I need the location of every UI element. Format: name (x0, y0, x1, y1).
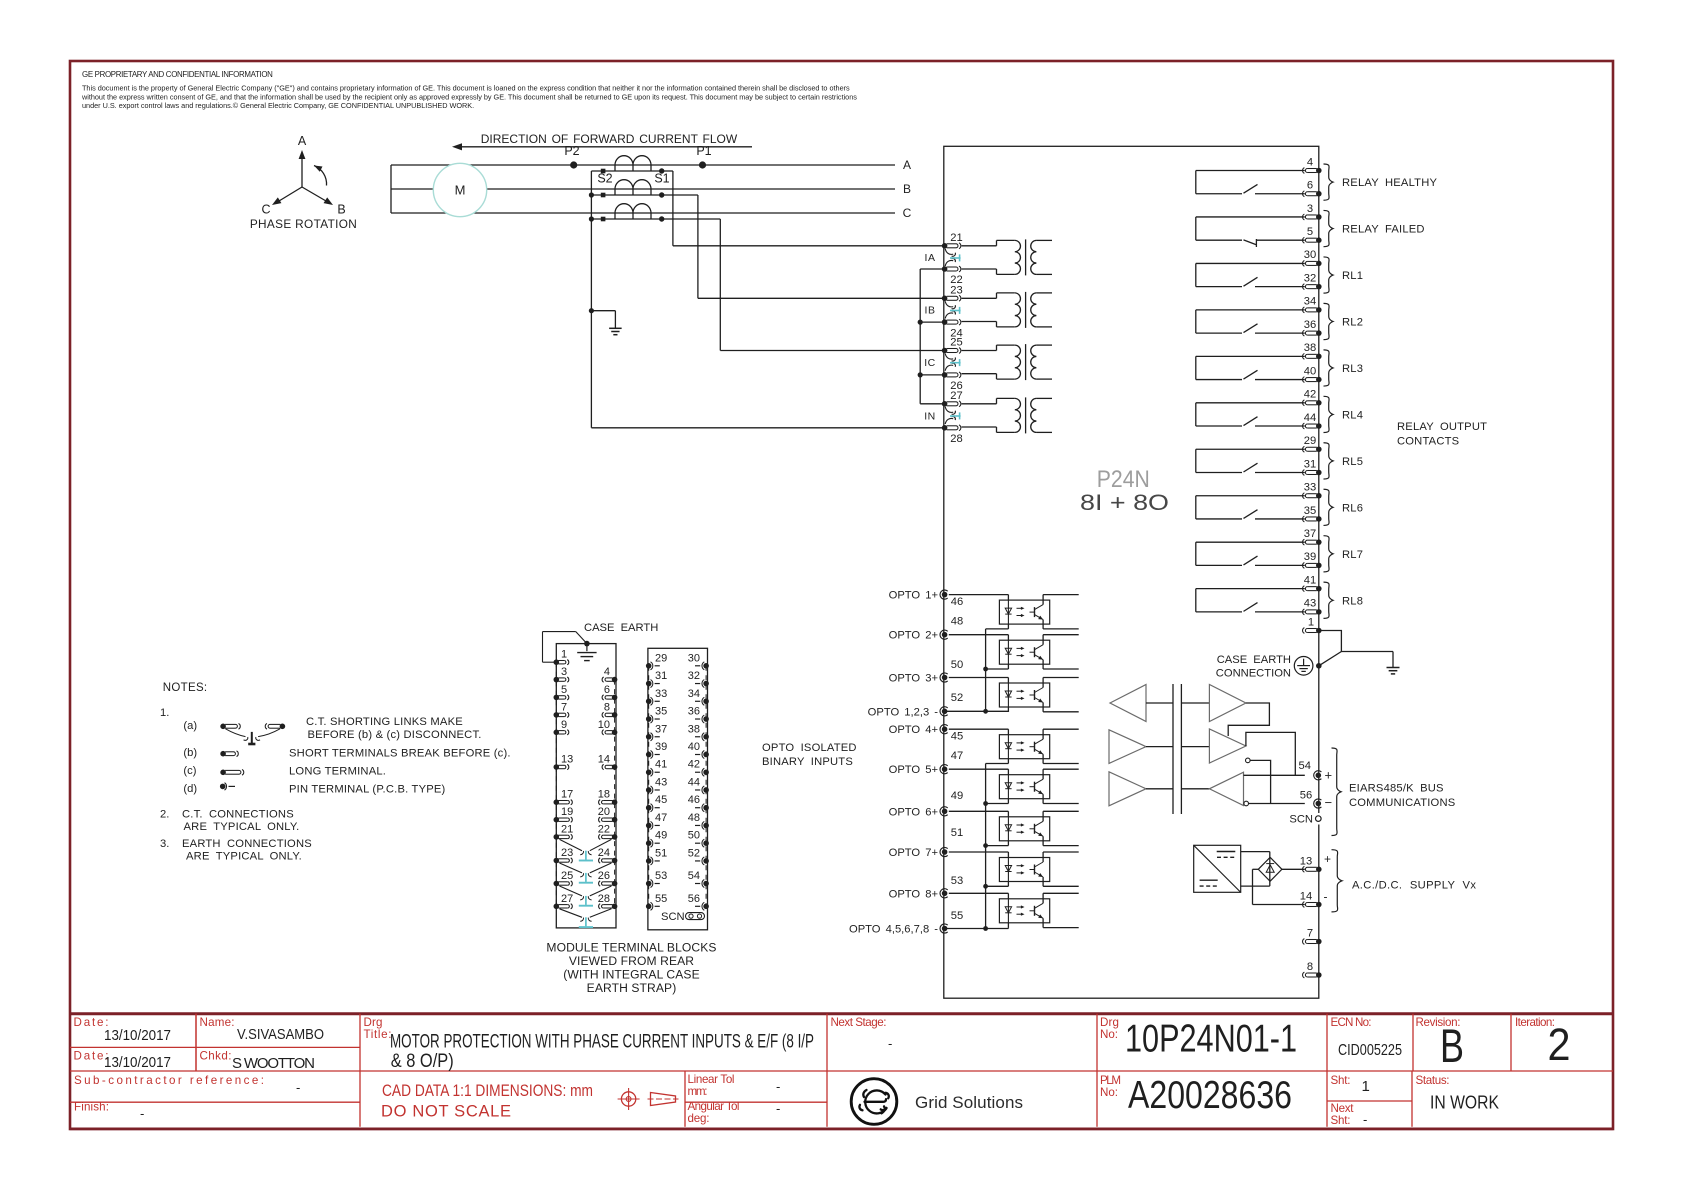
svg-text:BINARY INPUTS: BINARY INPUTS (762, 756, 853, 768)
svg-text:-: - (140, 1106, 144, 1121)
svg-text:9: 9 (561, 719, 567, 731)
svg-text:P1: P1 (696, 144, 711, 158)
svg-text:14: 14 (1300, 891, 1312, 903)
svg-text:ECN No:: ECN No: (1331, 1016, 1372, 1029)
svg-text:17: 17 (561, 789, 573, 801)
svg-text:8I + 8O: 8I + 8O (1080, 490, 1169, 515)
svg-text:RELAY HEALTHY: RELAY HEALTHY (1342, 177, 1437, 189)
svg-text:1: 1 (1308, 616, 1314, 628)
svg-text:Sht:: Sht: (1331, 1074, 1351, 1087)
svg-text:+: + (1325, 768, 1333, 783)
svg-text:without the express written co: without the express written consent of G… (81, 92, 857, 101)
svg-text:19: 19 (561, 806, 573, 818)
svg-text:45: 45 (655, 794, 667, 806)
svg-text:23: 23 (561, 847, 573, 859)
svg-text:29: 29 (655, 652, 667, 664)
svg-text:(b): (b) (183, 747, 197, 759)
svg-text:VIEWED FROM REAR: VIEWED FROM REAR (569, 954, 694, 968)
svg-text:38: 38 (1304, 342, 1316, 354)
svg-text:52: 52 (688, 847, 700, 859)
svg-text:20: 20 (598, 806, 610, 818)
svg-text:+: + (1324, 852, 1331, 866)
svg-text:Sub-contractor reference:: Sub-contractor reference: (74, 1074, 264, 1087)
svg-text:A: A (298, 134, 307, 148)
svg-text:31: 31 (655, 670, 667, 682)
svg-text:CASE EARTH: CASE EARTH (1217, 654, 1291, 666)
svg-text:CAD DATA 1:1 DIMENSIONS: mm: CAD DATA 1:1 DIMENSIONS: mm (382, 1082, 593, 1100)
svg-text:36: 36 (1304, 319, 1316, 331)
svg-text:26: 26 (598, 870, 610, 882)
svg-text:27: 27 (950, 390, 962, 402)
svg-text:OPTO 1+: OPTO 1+ (889, 590, 938, 602)
svg-text:4: 4 (604, 666, 610, 678)
svg-text:OPTO 4+: OPTO 4+ (889, 724, 938, 736)
svg-text:CONNECTION: CONNECTION (1216, 668, 1291, 680)
svg-text:PHASE ROTATION: PHASE ROTATION (250, 217, 357, 231)
svg-text:56: 56 (1300, 789, 1312, 801)
svg-text:7: 7 (1307, 927, 1313, 939)
svg-text:22: 22 (598, 823, 610, 835)
svg-text:40: 40 (688, 741, 700, 753)
svg-text:& 8 O/P): & 8 O/P) (391, 1050, 454, 1072)
svg-text:-: - (296, 1080, 300, 1095)
svg-text:OPTO 7+: OPTO 7+ (889, 847, 938, 859)
svg-text:44: 44 (1304, 412, 1316, 424)
svg-text:3: 3 (561, 666, 567, 678)
svg-text:30: 30 (688, 652, 700, 664)
svg-text:53: 53 (655, 870, 667, 882)
svg-text:ARE TYPICAL ONLY.: ARE TYPICAL ONLY. (186, 851, 302, 863)
svg-text:29: 29 (1304, 435, 1316, 447)
svg-text:MODULE TERMINAL BLOCKS: MODULE TERMINAL BLOCKS (546, 941, 716, 955)
svg-text:55: 55 (655, 893, 667, 905)
svg-text:33: 33 (655, 688, 667, 700)
svg-text:mm:: mm: (688, 1085, 708, 1098)
svg-text:50: 50 (688, 830, 700, 842)
svg-text:RL4: RL4 (1342, 409, 1363, 421)
svg-text:M: M (455, 183, 466, 198)
svg-text:Status:: Status: (1416, 1074, 1450, 1087)
svg-text:6: 6 (1307, 180, 1313, 192)
svg-text:RELAY OUTPUT: RELAY OUTPUT (1397, 421, 1487, 433)
svg-text:(c): (c) (183, 765, 196, 777)
svg-text:GE PROPRIETARY AND CONFIDENTIA: GE PROPRIETARY AND CONFIDENTIAL INFORMAT… (82, 70, 273, 79)
svg-text:OPTO ISOLATED: OPTO ISOLATED (762, 742, 857, 754)
svg-text:32: 32 (1304, 272, 1316, 284)
svg-text:RL3: RL3 (1342, 363, 1363, 375)
svg-text:28: 28 (950, 433, 962, 445)
svg-text:No:: No: (1100, 1086, 1118, 1099)
svg-text:(d): (d) (183, 783, 197, 795)
svg-text:34: 34 (1304, 296, 1316, 308)
svg-text:32: 32 (688, 670, 700, 682)
svg-text:S1: S1 (654, 172, 669, 186)
svg-text:RL1: RL1 (1342, 270, 1363, 282)
svg-text:35: 35 (1304, 505, 1316, 517)
svg-text:23: 23 (950, 284, 962, 296)
svg-text:31: 31 (1304, 458, 1316, 470)
svg-text:2.: 2. (160, 809, 169, 821)
svg-text:42: 42 (1304, 389, 1316, 401)
svg-text:46: 46 (688, 794, 700, 806)
svg-text:B: B (337, 203, 345, 217)
svg-text:25: 25 (950, 337, 962, 349)
svg-text:-: - (1363, 1112, 1367, 1127)
svg-text:47: 47 (655, 812, 667, 824)
svg-text:Next Stage:: Next Stage: (831, 1016, 887, 1029)
svg-text:-: - (776, 1079, 780, 1094)
svg-text:13: 13 (1300, 855, 1312, 867)
svg-text:C: C (261, 203, 270, 217)
svg-text:27: 27 (561, 893, 573, 905)
svg-text:−: − (1325, 795, 1333, 810)
svg-text:5: 5 (561, 684, 567, 696)
svg-text:Sht:: Sht: (1331, 1114, 1351, 1127)
svg-text:55: 55 (951, 910, 963, 922)
svg-text:S WOOTTON: S WOOTTON (232, 1055, 315, 1072)
svg-text:51: 51 (951, 827, 963, 839)
svg-text:-: - (776, 1101, 780, 1116)
svg-text:IN: IN (924, 410, 936, 422)
svg-text:CONTACTS: CONTACTS (1397, 436, 1459, 448)
svg-text:OPTO 3+: OPTO 3+ (889, 673, 938, 685)
svg-text:IA: IA (925, 252, 936, 264)
svg-text:Name:: Name: (200, 1016, 235, 1029)
svg-text:49: 49 (951, 790, 963, 802)
svg-text:39: 39 (655, 741, 667, 753)
svg-text:10: 10 (598, 719, 610, 731)
svg-text:41: 41 (1304, 574, 1316, 586)
svg-text:54: 54 (1298, 760, 1310, 772)
svg-text:36: 36 (688, 706, 700, 718)
svg-text:37: 37 (655, 723, 667, 735)
svg-text:P24N: P24N (1097, 466, 1150, 493)
svg-text:RL2: RL2 (1342, 316, 1363, 328)
svg-text:46: 46 (951, 596, 963, 608)
svg-text:RL7: RL7 (1342, 549, 1363, 561)
svg-text:Grid Solutions: Grid Solutions (915, 1093, 1023, 1112)
svg-text:43: 43 (655, 776, 667, 788)
svg-text:25: 25 (561, 870, 573, 882)
svg-text:13: 13 (561, 754, 573, 766)
svg-text:OPTO 6+: OPTO 6+ (889, 806, 938, 818)
svg-text:48: 48 (688, 812, 700, 824)
svg-text:C: C (903, 206, 912, 220)
svg-text:(WITH INTEGRAL CASE: (WITH INTEGRAL CASE (563, 968, 700, 982)
svg-text:S2: S2 (597, 172, 612, 186)
svg-text:47: 47 (951, 750, 963, 762)
svg-text:RL5: RL5 (1342, 456, 1363, 468)
svg-text:OPTO 2+: OPTO 2+ (889, 630, 938, 642)
svg-text:8: 8 (604, 701, 610, 713)
svg-text:44: 44 (688, 776, 700, 788)
svg-text:Title:: Title: (364, 1028, 392, 1041)
svg-text:under U.S. export control laws: under U.S. export control laws and regul… (82, 101, 474, 110)
svg-text:SHORT TERMINALS BREAK BEFORE (: SHORT TERMINALS BREAK BEFORE (c). (289, 748, 511, 760)
svg-text:EARTH STRAP): EARTH STRAP) (587, 981, 677, 995)
svg-text:RELAY FAILED: RELAY FAILED (1342, 224, 1425, 236)
svg-text:7: 7 (561, 701, 567, 713)
svg-text:B: B (903, 182, 911, 196)
svg-text:13/10/2017: 13/10/2017 (104, 1054, 171, 1071)
svg-text:38: 38 (688, 723, 700, 735)
svg-text:IC: IC (924, 357, 936, 369)
svg-text:8: 8 (1307, 961, 1313, 973)
svg-text:50: 50 (951, 659, 963, 671)
svg-text:SCN: SCN (661, 911, 685, 923)
svg-text:CASE EARTH: CASE EARTH (584, 622, 658, 634)
svg-text:21: 21 (561, 823, 573, 835)
svg-text:49: 49 (655, 830, 667, 842)
svg-text:18: 18 (598, 789, 610, 801)
svg-text:RL8: RL8 (1342, 595, 1363, 607)
svg-text:COMMUNICATIONS: COMMUNICATIONS (1349, 797, 1455, 809)
svg-text:(a): (a) (183, 720, 197, 732)
svg-text:PIN TERMINAL (P.C.B. TYPE): PIN TERMINAL (P.C.B. TYPE) (289, 784, 446, 796)
svg-text:53: 53 (951, 875, 963, 887)
svg-text:C.T. SHORTING LINKS MAKE: C.T. SHORTING LINKS MAKE (306, 716, 463, 728)
svg-text:SCN: SCN (1289, 814, 1313, 826)
svg-text:40: 40 (1304, 365, 1316, 377)
svg-text:EIARS485/K BUS: EIARS485/K BUS (1349, 783, 1444, 795)
svg-text:V.SIVASAMBO: V.SIVASAMBO (237, 1026, 324, 1043)
svg-text:Finish:: Finish: (74, 1101, 109, 1114)
svg-text:24: 24 (598, 847, 610, 859)
svg-text:ARE TYPICAL ONLY.: ARE TYPICAL ONLY. (184, 821, 300, 833)
svg-text:10P24N01-1: 10P24N01-1 (1125, 1018, 1297, 1061)
svg-text:56: 56 (688, 893, 700, 905)
svg-text:4: 4 (1307, 156, 1313, 168)
svg-text:43: 43 (1304, 598, 1316, 610)
svg-text:21: 21 (950, 232, 962, 244)
svg-text:13/10/2017: 13/10/2017 (104, 1027, 171, 1044)
svg-text:34: 34 (688, 688, 700, 700)
svg-text:OPTO 1,2,3 -: OPTO 1,2,3 - (868, 706, 939, 718)
svg-text:37: 37 (1304, 528, 1316, 540)
svg-text:deg:: deg: (688, 1112, 710, 1125)
svg-text:45: 45 (951, 731, 963, 743)
svg-text:P2: P2 (564, 144, 579, 158)
svg-text:28: 28 (598, 893, 610, 905)
svg-text:30: 30 (1304, 249, 1316, 261)
svg-text:A: A (903, 158, 911, 172)
svg-text:OPTO 8+: OPTO 8+ (889, 888, 938, 900)
svg-text:39: 39 (1304, 551, 1316, 563)
svg-text:42: 42 (688, 759, 700, 771)
svg-text:-: - (1324, 890, 1328, 904)
svg-text:DO NOT SCALE: DO NOT SCALE (381, 1103, 511, 1121)
svg-text:3.: 3. (160, 838, 169, 850)
svg-text:-: - (888, 1036, 892, 1051)
svg-text:52: 52 (951, 692, 963, 704)
svg-text:1: 1 (561, 649, 567, 661)
svg-text:RL6: RL6 (1342, 502, 1363, 514)
svg-text:3: 3 (1307, 203, 1313, 215)
svg-text:B: B (1440, 1019, 1464, 1072)
svg-text:C.T. CONNECTIONS: C.T. CONNECTIONS (182, 809, 294, 821)
svg-text:35: 35 (655, 706, 667, 718)
svg-text:54: 54 (688, 870, 700, 882)
svg-text:IB: IB (925, 305, 936, 317)
svg-text:OPTO 4,5,6,7,8 -: OPTO 4,5,6,7,8 - (849, 924, 938, 936)
svg-text:NOTES:: NOTES: (163, 682, 208, 694)
svg-text:EARTH CONNECTIONS: EARTH CONNECTIONS (182, 838, 312, 850)
svg-text:33: 33 (1304, 482, 1316, 494)
svg-text:1: 1 (1362, 1078, 1370, 1095)
svg-text:CID005225: CID005225 (1338, 1042, 1402, 1059)
svg-text:A.C./D.C. SUPPLY Vx: A.C./D.C. SUPPLY Vx (1352, 879, 1476, 891)
svg-text:IN WORK: IN WORK (1430, 1092, 1500, 1113)
svg-text:14: 14 (598, 754, 610, 766)
svg-text:OPTO 5+: OPTO 5+ (889, 764, 938, 776)
svg-text:51: 51 (655, 847, 667, 859)
svg-text:No:: No: (1100, 1028, 1118, 1041)
svg-text:2: 2 (1548, 1019, 1571, 1070)
svg-text:5: 5 (1307, 226, 1313, 238)
svg-text:BEFORE (b) & (c) DISCONNECT.: BEFORE (b) & (c) DISCONNECT. (308, 729, 482, 741)
svg-text:41: 41 (655, 759, 667, 771)
svg-text:6: 6 (604, 684, 610, 696)
svg-text:A20028636: A20028636 (1128, 1074, 1292, 1117)
svg-text:48: 48 (951, 616, 963, 628)
svg-text:1.: 1. (160, 707, 169, 719)
svg-text:This document is the property: This document is the property of General… (82, 84, 850, 93)
svg-text:LONG TERMINAL.: LONG TERMINAL. (289, 766, 386, 778)
svg-text:Chkd:: Chkd: (200, 1050, 232, 1063)
